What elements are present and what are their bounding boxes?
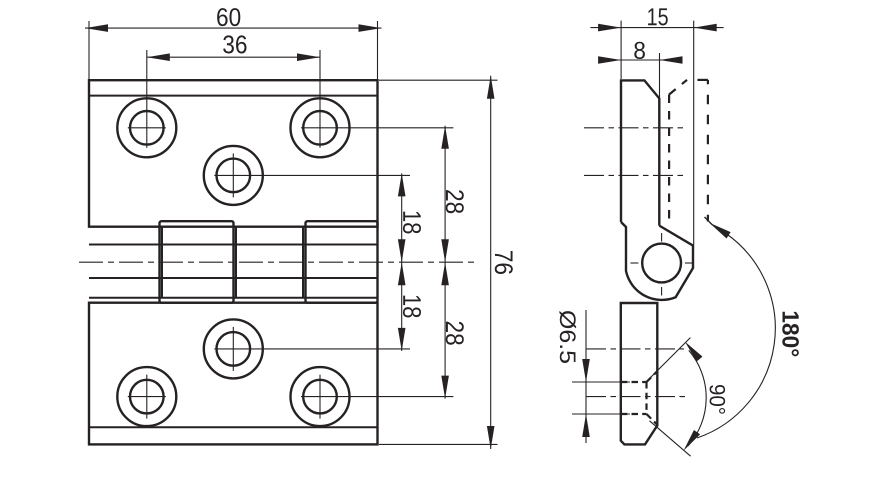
text dia 6.5 — [559, 311, 576, 363]
countersunk hole hidden lines — [621, 371, 658, 425]
90 deg arc — [688, 350, 706, 446]
open leaf dashed top — [687, 79, 708, 81]
hole mid-lower outer — [204, 319, 263, 378]
text 15 — [648, 8, 668, 25]
crosshair bottom-right hole — [301, 375, 453, 419]
open leaf dashed outer edge — [707, 80, 709, 222]
dimension 36 — [147, 56, 320, 58]
pivot boss outline — [621, 222, 693, 300]
text 28 upper — [446, 190, 464, 213]
hinge axis centerline — [79, 261, 475, 263]
knuckle 1 right edge — [161, 227, 163, 298]
open leaf corner tick — [705, 217, 713, 225]
knuckle bottom line — [89, 297, 378, 299]
upper leaf plate — [89, 80, 378, 227]
open leaf (dashed, 180 deg position) inner edge — [668, 95, 670, 226]
dimension 60 — [85, 21, 382, 79]
hole bottom-left inner — [130, 380, 164, 414]
hole top-right outer — [291, 98, 350, 157]
knuckle 3 left edge — [235, 227, 237, 298]
lower leaf profile — [621, 303, 658, 444]
hole mid-lower inner — [217, 332, 251, 366]
hole mid-upper outer — [204, 146, 263, 205]
text 60 — [217, 8, 240, 26]
countersink flank tick upper — [646, 338, 691, 383]
dimension 15 — [590, 21, 723, 245]
90 deg arrow lower — [680, 430, 700, 453]
text 36 — [223, 35, 246, 53]
hole mid-upper inner — [217, 159, 251, 193]
crosshair top-left hole — [128, 50, 166, 148]
dimension 18 lower — [401, 262, 403, 351]
hole top-left outer — [117, 98, 176, 157]
hole bottom-right inner — [303, 380, 337, 414]
crosshair top-right hole — [301, 50, 453, 148]
text 28 lower — [446, 322, 464, 345]
crosshair mid-upper hole — [214, 153, 410, 197]
text 76 — [495, 251, 513, 274]
lower leaf bend line — [89, 426, 378, 428]
text 18 lower — [403, 296, 421, 318]
text 8 — [634, 42, 645, 59]
180 deg arc — [697, 234, 775, 439]
hole top-left inner — [130, 111, 164, 145]
barrel lower line — [89, 277, 378, 279]
crosshair mid-lower hole — [214, 327, 410, 371]
hole row centrelines side view — [584, 128, 688, 397]
knuckle segment 2 — [160, 221, 234, 303]
pivot bore — [642, 244, 681, 283]
hole bottom-left outer — [117, 367, 176, 426]
180 deg arrow upper — [707, 220, 730, 239]
knuckle 3 right edge — [302, 227, 304, 298]
crosshair bottom-left hole — [128, 375, 166, 419]
hole bottom-right outer — [291, 367, 350, 426]
dimension 28 lower — [444, 262, 446, 398]
barrel upper line — [89, 244, 378, 246]
90 deg arrow upper — [682, 339, 703, 362]
dimension 28 upper — [444, 126, 446, 262]
dimension 76 — [379, 76, 498, 449]
upper leaf profile — [621, 80, 659, 225]
open leaf dashed chamfer — [669, 80, 687, 95]
countersink flank tick lower — [650, 421, 691, 456]
dimension 18 upper — [401, 173, 403, 262]
hole top-right inner — [303, 111, 337, 145]
knuckle segment 4 — [306, 221, 378, 303]
text 180 deg — [782, 312, 799, 357]
text 18 upper — [403, 212, 421, 234]
text 90 deg — [710, 385, 726, 414]
lower leaf plate — [89, 303, 378, 445]
pivot centre marks — [630, 233, 693, 296]
upper leaf bend line — [89, 95, 378, 97]
dimension 8 — [605, 53, 682, 98]
dimension dia 6.5 — [572, 310, 630, 443]
